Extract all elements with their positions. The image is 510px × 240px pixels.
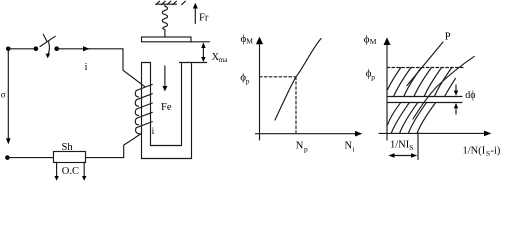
G2 band line lower (387, 102, 462, 104)
node D (5, 155, 10, 160)
O.C terminal left (56, 162, 58, 176)
armature plate (142, 37, 192, 42)
coil curl 3 (135, 109, 138, 115)
svg-text:Fr: Fr (199, 13, 209, 24)
node A (6, 47, 11, 52)
electromagnet core inner (151, 63, 182, 146)
svg-text:σ: σ (1, 90, 6, 100)
G2 band line upper (387, 96, 462, 98)
ceiling hatch (156, 1, 185, 4)
svg-text:M: M (246, 37, 253, 46)
coil curl 2 (135, 100, 138, 106)
G2 band mask (388, 97, 462, 102)
G2 magnetisation curve (413, 56, 474, 119)
svg-text:Sh: Sh (62, 142, 74, 153)
svg-text:1/NI: 1/NI (390, 139, 410, 150)
svg-text:N: N (296, 141, 304, 152)
svg-text:-i): -i) (491, 146, 501, 157)
svg-text:O.C: O.C (62, 166, 79, 177)
svg-text:N: N (345, 141, 353, 152)
G2 hatch family below band (388, 102, 436, 133)
svg-text:i: i (152, 127, 155, 137)
wire (86, 134, 141, 158)
G1 dashed horizontal (260, 76, 297, 78)
svg-text:i: i (353, 145, 355, 154)
coil L1 turn 2 (136, 94, 152, 100)
svg-text:dϕ: dϕ (465, 90, 475, 101)
switch S blade (40, 36, 55, 46)
wire (7, 157, 53, 159)
wire (57, 48, 123, 50)
wire (123, 49, 145, 87)
coil L1 turn 3 (136, 103, 152, 109)
node B (34, 46, 39, 51)
G2 x-axis (379, 132, 485, 134)
G2 dashed phi p line (387, 67, 463, 69)
current arrow i (83, 46, 90, 51)
coil L1 turn 1 (136, 84, 152, 90)
O.C terminal right (83, 162, 85, 176)
svg-text:ma: ma (219, 56, 228, 64)
G2 hatch family above band (388, 68, 456, 97)
electromagnet core outer (142, 63, 192, 159)
G2 P load line (407, 42, 443, 86)
svg-text:S: S (409, 143, 413, 152)
air gap arrow Xma (202, 46, 204, 59)
svg-text:P: P (445, 32, 451, 43)
gap reference line (191, 41, 210, 43)
G1 magnetisation curve (275, 39, 321, 121)
G2 y-axis (386, 43, 388, 140)
source sigma line (7, 49, 9, 139)
switch S tick (43, 34, 47, 41)
G1 y-axis (259, 42, 261, 140)
shunt Sh (54, 152, 86, 163)
wire (8, 48, 36, 50)
flux arrow (164, 66, 166, 87)
coil L1 turn 5 (136, 122, 152, 128)
G2 d-phi arrow upper (455, 85, 457, 92)
svg-text:1/N(I: 1/N(I (463, 146, 486, 157)
ceiling support (156, 3, 177, 5)
svg-text:Fe: Fe (161, 102, 172, 113)
core left cap (142, 62, 151, 64)
svg-text:M: M (370, 37, 377, 46)
core right cap (180, 62, 207, 64)
coil curl 4 (135, 118, 138, 124)
svg-text:p: p (371, 73, 375, 82)
coil curl 1 (135, 91, 138, 97)
G2 tick 1/NIs (417, 133, 419, 160)
svg-text:p: p (304, 145, 308, 154)
switch S motion arrow (48, 41, 49, 55)
G2 span arrow 1/NIs (391, 155, 415, 157)
G1 x-axis (256, 133, 356, 135)
node C (54, 46, 59, 51)
coil exit curl (136, 128, 141, 134)
G1 dashed vertical (295, 77, 297, 134)
svg-text:i: i (85, 62, 88, 73)
G2 d-phi arrow lower (455, 108, 457, 115)
spring (162, 4, 167, 37)
coil L1 turn 4 (136, 112, 152, 118)
force Fr arrow (194, 8, 196, 24)
svg-text:p: p (246, 77, 250, 86)
